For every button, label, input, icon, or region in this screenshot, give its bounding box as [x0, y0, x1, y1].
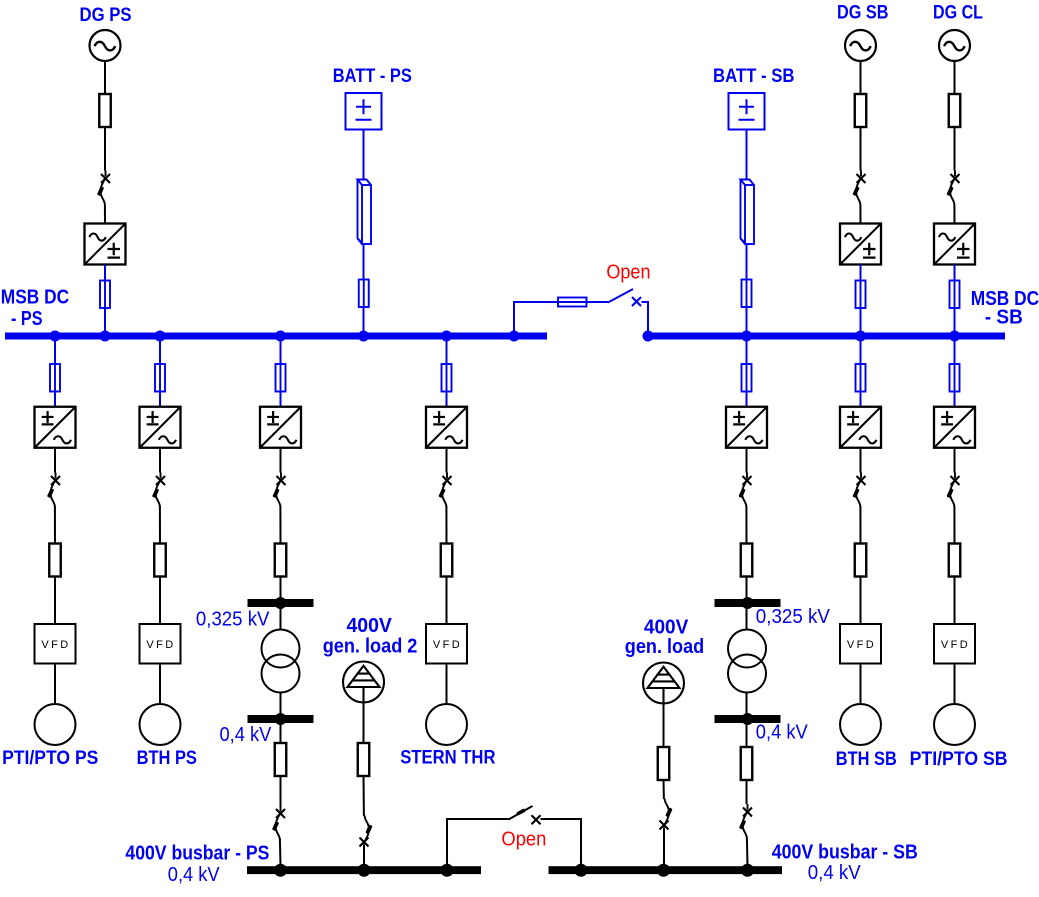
VFD U3 STERN THR [426, 624, 467, 664]
wire [159, 340, 161, 408]
svg-text:0,4 kV: 0,4 kV [808, 862, 862, 884]
converter AC/DC DG CL [934, 224, 975, 265]
wire [363, 244, 365, 333]
breaker DG PS [97, 171, 110, 206]
wire [954, 127, 956, 171]
converter DC/AC XFMR PS [260, 407, 301, 448]
wire [663, 704, 665, 748]
wire [953, 205, 955, 224]
wire tie left riser [514, 302, 558, 333]
breaker XFMR PS top [272, 473, 285, 508]
battery fuse-switch BATT-PS [358, 180, 372, 245]
wire [860, 61, 862, 94]
svg-text:DG SB: DG SB [837, 3, 889, 24]
wire [746, 448, 748, 473]
svg-text:BTH PS: BTH PS [137, 748, 197, 769]
breaker DG SB [852, 171, 865, 206]
wire [954, 340, 956, 408]
wire [280, 577, 282, 600]
motor M1 PTI/PTO PS [35, 704, 76, 745]
wire [860, 577, 862, 625]
busbar 400V PS [247, 866, 481, 874]
wire [54, 506, 56, 544]
wire [746, 340, 748, 408]
wire [54, 577, 56, 625]
node MSB-SB dot 2 [741, 331, 752, 342]
fuse element BTH SB [855, 544, 867, 577]
motor M3 STERN THR [426, 704, 467, 745]
svg-text:0,4 kV: 0,4 kV [756, 722, 809, 744]
fuse DC feeder STERN THR [442, 364, 452, 392]
wire [280, 776, 282, 806]
node MSB-SB dot 1 [643, 331, 654, 342]
fuse MSB tie [558, 298, 587, 307]
wire [159, 506, 161, 544]
motor M5 PTI/PTO SB [934, 704, 975, 745]
battery fuse-switch BATT-SB [741, 180, 755, 245]
svg-text:STERN THR: STERN THR [400, 748, 496, 769]
svg-text:PTI/PTO SB: PTI/PTO SB [910, 749, 1008, 770]
wire [746, 692, 748, 715]
wire tie left riser 400V [447, 819, 509, 867]
fuse element gen. load 2 [358, 743, 370, 776]
wire [363, 130, 365, 181]
fuse element XFMR PS top [275, 544, 287, 577]
svg-text:PTI/PTO PS: PTI/PTO PS [2, 748, 98, 769]
wire [446, 340, 448, 408]
fuse element XFMR SB bottom [741, 747, 753, 780]
wire [746, 607, 748, 630]
svg-text:DG PS: DG PS [80, 5, 132, 26]
fuse DC feeder PTI/PTO PS [50, 364, 60, 392]
node 400V-SB dot 3 [741, 864, 754, 877]
fuse DC BATT-PS [359, 280, 369, 308]
svg-text:MSB DC: MSB DC [1, 287, 69, 309]
wire [587, 301, 609, 303]
node 400V-PS dot 3 [441, 864, 454, 877]
svg-text:DG CL: DG CL [933, 3, 983, 24]
wire [860, 265, 862, 333]
node MSB-PS dot 2 [100, 331, 111, 342]
wire [859, 205, 861, 224]
node 0,4kV bar PS [248, 713, 314, 725]
breaker BTH SB [852, 473, 865, 508]
node MSB-PS dot 4 [275, 331, 286, 342]
wire [363, 776, 365, 816]
wire [446, 664, 448, 705]
fuse element BTH PS [154, 544, 166, 577]
battery BATT-SB [729, 93, 765, 130]
fuse element STERN THR [441, 544, 453, 577]
wire [663, 830, 665, 867]
fuse DC BATT-SB [742, 280, 752, 308]
fuse DC feeder PTI/PTO SB [950, 364, 960, 392]
node MSB-PS dot 1 [50, 331, 61, 342]
converter DC/AC BTH SB [840, 407, 881, 448]
wire [104, 61, 106, 94]
load symbol gen. load 2 [343, 662, 384, 703]
svg-text:0,4 kV: 0,4 kV [220, 724, 273, 746]
breaker DG CL [946, 171, 959, 206]
converter DC/AC STERN THR [426, 407, 467, 448]
svg-text:400V busbar - SB: 400V busbar - SB [772, 841, 918, 863]
wire [954, 448, 956, 473]
node 400V-PS dot 2 [358, 864, 371, 877]
node 400V-PS dot 1 [274, 864, 287, 877]
transformer T1 PS [262, 630, 300, 693]
svg-text:0,325 kV: 0,325 kV [756, 606, 831, 628]
wire [954, 265, 956, 333]
VFD U4 BTH SB [840, 624, 881, 664]
breaker gen. load (cross down) [660, 799, 673, 834]
wire [954, 577, 956, 625]
fuse element XFMR PS bottom [275, 743, 287, 776]
wire [860, 340, 862, 408]
wire [280, 692, 282, 715]
converter DC/AC PTI/PTO PS [35, 407, 76, 448]
fuse DC feeder XFMR SB [742, 364, 752, 392]
svg-text:- SB: - SB [985, 307, 1023, 329]
node MSB-SB dot 4 [949, 331, 960, 342]
svg-text:BATT - PS: BATT - PS [333, 66, 412, 87]
bus MSB DC - SB [644, 333, 1005, 340]
wire [159, 664, 161, 705]
wire [953, 506, 955, 544]
wire [159, 448, 161, 473]
wire [159, 577, 161, 625]
wire [279, 839, 282, 867]
generator G2 DG SB [845, 30, 876, 61]
converter DC/AC BTH PS [140, 407, 181, 448]
load symbol gen. load [643, 663, 684, 704]
VFD U5 PTI/PTO SB [934, 624, 975, 664]
VFD U1 PTI/PTO PS [35, 624, 76, 664]
wire [860, 448, 862, 473]
converter DC/AC PTI/PTO SB [934, 407, 975, 448]
wire [279, 506, 281, 544]
breaker XFMR SB bottom [739, 804, 752, 839]
wire [860, 127, 862, 171]
contact cross 400V tie [532, 815, 541, 824]
fuse DC feeder BTH SB [856, 364, 866, 392]
motor M4 BTH SB [840, 704, 881, 745]
svg-text:Open: Open [606, 262, 650, 284]
blade tick 400V tie [516, 808, 526, 815]
node 0,4kV bar SB [715, 713, 781, 725]
breaker BTH PS [152, 473, 165, 508]
node MSB-PS dot 5 [358, 331, 369, 342]
svg-text:- PS: - PS [11, 308, 43, 330]
wire [54, 664, 56, 705]
wire [104, 205, 106, 224]
node 0,325kV bar PS [248, 597, 314, 609]
node 400V-SB dot 2 [657, 864, 670, 877]
svg-text:BTH SB: BTH SB [836, 749, 897, 770]
wire [746, 130, 748, 181]
bus MSB DC - PS [5, 333, 547, 340]
svg-text:gen. load: gen. load [625, 636, 704, 658]
fuse DC DG PS [100, 281, 110, 309]
svg-text:BATT - SB: BATT - SB [713, 66, 795, 87]
node MSB-SB dot 3 [855, 331, 866, 342]
generator G3 DG CL [939, 30, 970, 61]
transformer T2 SB [728, 630, 766, 693]
wire [54, 448, 56, 473]
contact cross MSB tie [632, 297, 641, 306]
breaker gen. load 2 (cross down) [360, 816, 373, 851]
wire [280, 723, 282, 743]
node MSB-PS dot 6 [441, 331, 452, 342]
wire [746, 244, 748, 333]
fuse DC feeder BTH PS [155, 364, 165, 392]
wire [954, 664, 956, 705]
breaker STERN THR [438, 473, 451, 508]
converter AC/DC DG SB [840, 224, 881, 265]
fuse element DG CL [949, 94, 961, 127]
wire [954, 61, 956, 94]
battery BATT-PS [346, 93, 382, 130]
svg-text:0,4 kV: 0,4 kV [168, 864, 220, 886]
wire [860, 664, 862, 705]
breaker PTI/PTO PS [47, 473, 60, 508]
svg-text:400V busbar - PS: 400V busbar - PS [125, 842, 269, 864]
breaker XFMR PS bottom [272, 806, 285, 841]
busbar 400V SB [549, 866, 783, 874]
svg-text:400V: 400V [347, 615, 393, 637]
wire [746, 780, 748, 804]
wire [363, 703, 365, 744]
wire [104, 127, 106, 171]
wire [745, 506, 747, 544]
switch blade 400V tie (open) [509, 806, 533, 820]
motor M2 BTH PS [140, 704, 181, 745]
node 400V-SB dot 1 [575, 864, 588, 877]
wire tie right riser [642, 302, 649, 333]
fuse element DG PS [99, 94, 111, 127]
wire [746, 838, 749, 867]
svg-text:Open: Open [501, 829, 546, 851]
node MSB-PS dot 7 [509, 331, 520, 342]
wire [280, 607, 282, 630]
breaker PTI/PTO SB [946, 473, 959, 508]
wire [104, 265, 106, 333]
fuse element PTI/PTO SB [949, 544, 961, 577]
fuse DC DG CL [950, 281, 960, 309]
VFD U2 BTH PS [140, 624, 181, 664]
wire [746, 723, 748, 747]
switch blade MSB tie (open) [608, 289, 633, 303]
wire [445, 506, 447, 544]
generator G1 DG PS [90, 30, 121, 61]
wire [746, 577, 748, 600]
svg-text:gen. load 2: gen. load 2 [323, 635, 418, 657]
wire [663, 780, 665, 799]
breaker XFMR SB top [738, 473, 751, 508]
wire [280, 448, 282, 473]
fuse DC feeder XFMR PS [276, 364, 286, 392]
node MSB-PS dot 3 [155, 331, 166, 342]
converter DC/AC XFMR SB [726, 407, 767, 448]
svg-text:0,325 kV: 0,325 kV [196, 608, 270, 630]
fuse DC DG SB [856, 281, 866, 309]
wire [446, 577, 448, 625]
wire tie right riser 400V [541, 819, 582, 867]
fuse element gen. load [658, 747, 670, 780]
fuse element XFMR SB top [741, 544, 753, 577]
wire [363, 847, 365, 867]
wire [446, 448, 448, 473]
wire [280, 340, 282, 408]
fuse element DG SB [855, 94, 867, 127]
wire [859, 506, 861, 544]
node 0,325kV bar SB [715, 597, 781, 609]
converter AC/DC DG PS [85, 224, 126, 265]
wire [54, 340, 56, 408]
fuse element PTI/PTO PS [49, 544, 61, 577]
